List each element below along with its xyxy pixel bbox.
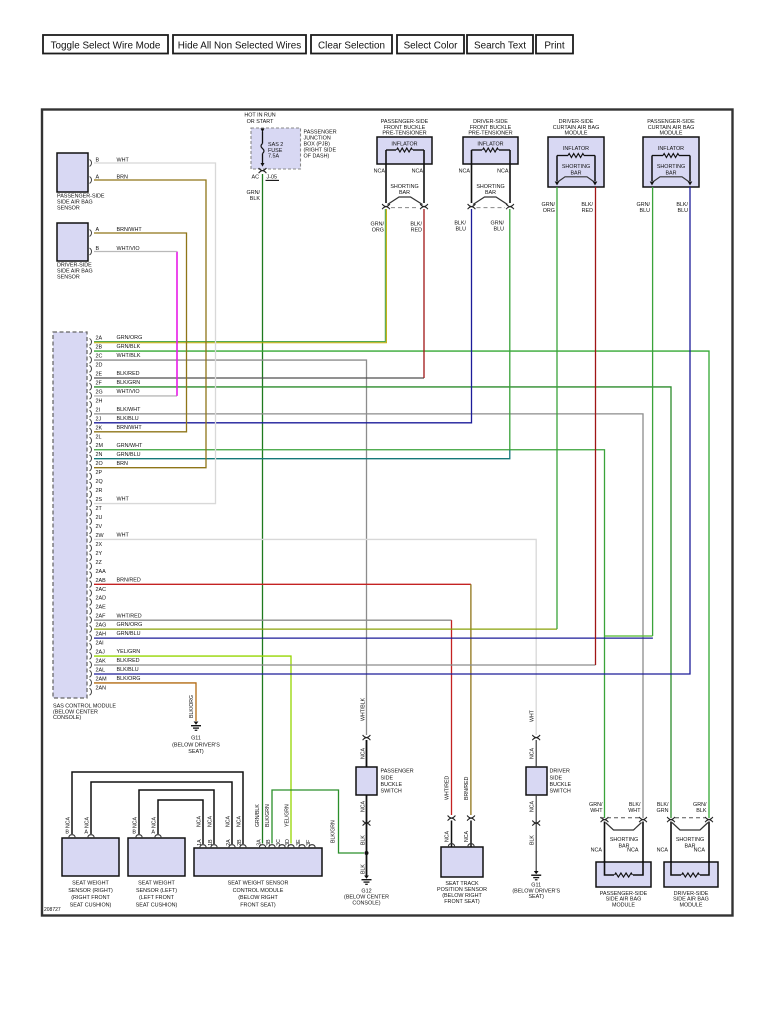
pin B of driver side air bag sensor	[90, 246, 100, 255]
component passenger side buckle switch	[356, 767, 414, 795]
component passenger-side side air bag module	[596, 862, 651, 908]
wire label BRN/RED at seat track sensor	[464, 776, 470, 800]
pin 2M of SAS control module	[90, 443, 143, 453]
svg-text:SEAT): SEAT)	[528, 894, 544, 900]
svg-text:2A: 2A	[96, 336, 103, 342]
wire label GRN/ORG at passenger pre-tensioner	[371, 221, 385, 233]
wire 2A GRN/ORG from SAS 2A to passenger front pre-tensioner	[94, 209, 386, 343]
wire from seat weight sensor right pin A to control module pin 2A	[91, 782, 232, 844]
svg-text:NCA: NCA	[530, 748, 536, 759]
wire label BLK/BLU at passenger curtain module	[676, 202, 688, 214]
shorting bar of driver side air bag module	[672, 823, 708, 850]
svg-text:2T: 2T	[96, 506, 103, 512]
svg-text:SEAT WEIGHT: SEAT WEIGHT	[138, 880, 175, 886]
svg-text:NCA: NCA	[208, 816, 214, 827]
svg-text:SWITCH: SWITCH	[550, 789, 571, 795]
wire label BLK/BLU at driver pre-tensioner	[454, 220, 466, 232]
button Clear Selection	[311, 35, 392, 54]
component seat weight sensor control module	[194, 848, 322, 909]
svg-text:2Z: 2Z	[96, 560, 103, 566]
svg-text:208727: 208727	[44, 907, 61, 913]
pin 2B of seat weight sensor control module	[237, 839, 246, 847]
svg-text:BLU: BLU	[678, 208, 689, 214]
component seat weight sensor right	[62, 838, 119, 909]
svg-text:GRN/WHT: GRN/WHT	[117, 443, 143, 449]
svg-text:SEAT WEIGHT: SEAT WEIGHT	[72, 880, 109, 886]
diagram number 208727	[44, 907, 61, 913]
pin 2E of SAS control module	[90, 371, 140, 381]
svg-text:NCA: NCA	[657, 847, 669, 853]
svg-text:FRONT SEAT): FRONT SEAT)	[444, 899, 480, 905]
pin 1A of seat weight sensor control module	[197, 839, 206, 847]
svg-text:2D: 2D	[96, 363, 103, 369]
svg-text:SWITCH: SWITCH	[381, 789, 402, 795]
pin A of driver side air bag sensor	[90, 227, 100, 236]
label NCA pins driver front pre-tensioner	[459, 168, 509, 174]
wire NCA into passenger buckle switch	[361, 740, 367, 767]
wire 2AG GRN/ORG from SAS 2AG to driver curtain air bag module	[94, 187, 557, 629]
svg-text:WHT/RED: WHT/RED	[117, 613, 142, 619]
pin 2X of SAS control module	[90, 542, 103, 552]
svg-text:3A: 3A	[256, 839, 262, 846]
pin 2AL of SAS control module	[90, 667, 139, 677]
pin 2L of SAS control module	[90, 434, 102, 444]
wire label YEL/GRN at control module pin 3D	[285, 804, 291, 827]
svg-text:GRN/BLK: GRN/BLK	[117, 344, 141, 350]
svg-text:MODULE: MODULE	[564, 131, 587, 137]
svg-text:3F: 3F	[306, 840, 312, 846]
svg-text:G11: G11	[191, 736, 201, 742]
wire 2B GRN/BLK from SAS 2B to driver-side side air bag module	[94, 351, 709, 818]
wire 2N GRN/BLU from SAS 2N to driver front pre-tensioner	[94, 209, 510, 459]
svg-text:2I: 2I	[96, 407, 101, 413]
svg-text:NCA: NCA	[459, 168, 471, 174]
wire NCA into driver buckle switch	[530, 740, 537, 767]
wire 2K BRN/WHT from SAS 2K to driver side air bag sensor pin A	[94, 233, 187, 432]
pins B and A of seat weight sensor right	[65, 817, 94, 838]
component driver-side curtain air bag module	[548, 119, 604, 187]
svg-text:SENSOR: SENSOR	[57, 206, 80, 212]
svg-text:INFLATOR: INFLATOR	[563, 146, 589, 152]
pigtail wires of driver side air bag module	[671, 822, 709, 863]
wire label WHT above driver buckle switch	[530, 709, 536, 722]
svg-text:SEAT CUSHION): SEAT CUSHION)	[70, 903, 112, 909]
svg-text:(BELOW RIGHT: (BELOW RIGHT	[238, 895, 278, 901]
wire label GRN/BLK at driver side air bag module	[693, 802, 707, 814]
wire label BLK/RED at passenger pre-tensioner	[410, 221, 422, 233]
button Print	[536, 35, 573, 54]
pin 2T of SAS control module	[90, 506, 103, 516]
svg-text:PRE-TENSIONER: PRE-TENSIONER	[382, 131, 426, 137]
svg-text:DRIVER: DRIVER	[550, 769, 570, 775]
wire 2W WHT from SAS 2W to driver side buckle switch	[94, 539, 536, 735]
svg-text:A: A	[96, 227, 100, 233]
pigtail wires and NCA pins of seat track sensor	[445, 821, 475, 848]
svg-text:BLK: BLK	[250, 196, 261, 202]
svg-text:SIDE: SIDE	[381, 775, 394, 781]
svg-text:PASSENGER: PASSENGER	[381, 769, 414, 775]
svg-text:NCA: NCA	[197, 816, 203, 827]
svg-text:3D: 3D	[285, 839, 291, 846]
pin 2C of SAS control module	[90, 353, 141, 363]
svg-text:NCA: NCA	[152, 817, 158, 828]
svg-text:2B: 2B	[237, 839, 243, 846]
wire 2M GRN/WHT from SAS 2M to passenger-side side air bag module	[94, 450, 605, 818]
pin 2AC of SAS control module	[90, 587, 107, 597]
pin 2Z of SAS control module	[90, 560, 103, 570]
svg-text:2AE: 2AE	[96, 605, 107, 611]
wire label GRN/BLU at passenger curtain module	[637, 202, 651, 214]
wire label WHT/RED at seat track sensor	[445, 776, 451, 800]
pin 2A of seat weight sensor control module	[226, 839, 235, 847]
svg-text:SENSOR (LEFT): SENSOR (LEFT)	[136, 888, 177, 894]
svg-text:3B: 3B	[266, 839, 272, 846]
svg-text:SHORTING: SHORTING	[390, 184, 418, 190]
svg-text:3C: 3C	[276, 839, 282, 846]
svg-text:2J: 2J	[96, 416, 102, 422]
wire 2F BLK/GRN from SAS 2F to driver-side side air bag module	[94, 387, 671, 818]
pin 2B of SAS control module	[90, 344, 141, 354]
pin 2AJ of SAS control module	[90, 649, 141, 659]
wire 2AM BLK/ORG from SAS 2AM to ground G11	[94, 683, 196, 721]
svg-text:CONSOLE): CONSOLE)	[352, 900, 380, 906]
component seat track position sensor	[437, 847, 487, 905]
svg-text:2A: 2A	[226, 839, 232, 846]
svg-text:2K: 2K	[96, 425, 103, 431]
wire 2AJ YEL/GRN from SAS 2AJ to seat weight sensor control module pin 3D	[94, 656, 291, 843]
ground G11 below driver seat (buckle switch)	[512, 871, 560, 900]
svg-text:1A: 1A	[197, 839, 203, 846]
pin 2N of SAS control module	[90, 452, 141, 462]
wire 2O BRN from SAS 2O to passenger side air bag sensor pin A	[94, 180, 206, 468]
svg-text:2M: 2M	[96, 443, 104, 449]
wire below passenger buckle switch to ground G12	[361, 795, 371, 876]
pin 2AM of SAS control module	[90, 676, 141, 686]
svg-text:GRN/ORG: GRN/ORG	[117, 335, 143, 341]
component passenger-side curtain air bag module	[643, 119, 699, 187]
svg-text:2AD: 2AD	[96, 596, 107, 602]
ground G12 below center console	[344, 876, 389, 907]
button Select Color	[397, 35, 464, 54]
svg-text:BLK/BLU: BLK/BLU	[117, 416, 139, 422]
wire label BLK/GRN at control module pin 3B	[265, 804, 271, 827]
svg-text:PRE-TENSIONER: PRE-TENSIONER	[468, 131, 512, 137]
svg-text:2AF: 2AF	[96, 614, 107, 620]
pin 3F of seat weight sensor control module	[306, 840, 315, 847]
pin arrows of driver curtain module	[555, 182, 598, 186]
svg-text:(RIGHT FRONT: (RIGHT FRONT	[71, 895, 110, 901]
svg-text:BLU: BLU	[456, 226, 467, 232]
wire 2I BLK/WHT from SAS 2I to passenger-side side air bag module	[94, 414, 643, 818]
wire label GRN/ORG at driver curtain module	[542, 202, 556, 214]
svg-text:2AG: 2AG	[96, 623, 107, 629]
svg-text:BRN/RED: BRN/RED	[117, 577, 141, 583]
svg-text:BLK/GRN: BLK/GRN	[331, 820, 337, 843]
svg-text:GRN: GRN	[657, 808, 669, 814]
wire label BLK/RED at driver curtain module	[581, 202, 593, 214]
pin 3D of seat weight sensor control module	[285, 839, 294, 847]
svg-text:Select Color: Select Color	[404, 40, 458, 51]
svg-text:BLU: BLU	[640, 208, 651, 214]
passenger junction box (PJB) dashed box	[251, 128, 301, 169]
pin 2F of SAS control module	[90, 380, 141, 390]
wire 2S WHT from SAS 2S to passenger side air bag sensor pin B	[94, 163, 216, 504]
power feed HOT IN RUN OR START	[244, 113, 275, 125]
svg-text:NCA: NCA	[237, 816, 243, 827]
svg-text:RED: RED	[582, 208, 593, 214]
shorting bar of driver curtain module	[557, 164, 595, 182]
svg-text:BRN/WHT: BRN/WHT	[117, 227, 143, 233]
svg-text:2AH: 2AH	[96, 632, 107, 638]
pin 2D of SAS control module	[90, 363, 103, 373]
svg-text:1B: 1B	[208, 839, 214, 846]
component seat weight sensor left	[128, 838, 185, 909]
svg-text:J-05: J-05	[267, 175, 278, 181]
wire from seat weight sensor right pin B to control module pin 2B	[72, 772, 243, 844]
diagram border frame	[42, 110, 733, 916]
svg-text:2Y: 2Y	[96, 551, 103, 557]
wire from seat weight sensor left pin B to control module pin 1B	[139, 790, 214, 844]
wire 2J BLK/BLU from SAS 2J to driver front pre-tensioner	[94, 209, 472, 423]
shorting bar of driver front pre-tensioner	[473, 184, 508, 205]
svg-text:GRN/BLU: GRN/BLU	[117, 452, 141, 458]
svg-text:NCA: NCA	[445, 831, 451, 842]
component driver side buckle switch	[526, 767, 571, 795]
svg-text:NCA: NCA	[133, 817, 139, 828]
svg-text:BAR: BAR	[665, 170, 676, 176]
inflator resistor of driver side air bag module	[671, 861, 709, 877]
svg-text:MODULE: MODULE	[612, 902, 635, 908]
pin A of passenger side air bag sensor	[90, 175, 100, 184]
button Hide All Non Selected Wires	[173, 35, 306, 54]
pin 2O of SAS control module	[90, 461, 128, 471]
svg-text:YEL/GRN: YEL/GRN	[117, 649, 141, 655]
svg-text:NCA: NCA	[374, 168, 386, 174]
svg-text:NCA: NCA	[530, 801, 536, 812]
pin 2U of SAS control module	[90, 515, 103, 525]
svg-text:SHORTING: SHORTING	[562, 164, 590, 170]
svg-text:GRN/ORG: GRN/ORG	[117, 622, 143, 628]
svg-text:NCA: NCA	[85, 817, 91, 828]
svg-text:BLU: BLU	[494, 226, 505, 232]
pin 3A of seat weight sensor control module	[256, 839, 265, 847]
svg-text:Search Text: Search Text	[474, 40, 526, 51]
svg-text:MODULE: MODULE	[679, 902, 702, 908]
svg-text:2E: 2E	[96, 371, 103, 377]
pins B and A of seat weight sensor left	[132, 817, 161, 838]
pigtail wires of passenger side air bag module	[605, 822, 644, 863]
svg-text:WHT: WHT	[590, 808, 603, 814]
wire 2AL BLK/BLU from SAS 2AL to passenger curtain air bag module	[94, 187, 690, 674]
inflator resistor of driver curtain module	[557, 154, 595, 182]
svg-text:BLK/RED: BLK/RED	[117, 371, 140, 377]
pin 2J of SAS control module	[90, 416, 139, 426]
svg-text:NCA: NCA	[66, 817, 72, 828]
svg-text:2X: 2X	[96, 542, 103, 548]
pin 2AH of SAS control module	[90, 631, 141, 641]
svg-text:2AJ: 2AJ	[96, 650, 106, 656]
component passenger-side side air bag sensor	[57, 153, 105, 212]
svg-text:AC: AC	[252, 175, 260, 181]
svg-text:B: B	[65, 830, 69, 836]
svg-text:BLK: BLK	[696, 808, 707, 814]
labels NCA of passenger side air bag module	[591, 847, 639, 853]
pin 3C of seat weight sensor control module	[276, 839, 285, 847]
label NCA pins passenger front pre-tensioner	[374, 168, 424, 174]
svg-text:2AN: 2AN	[96, 685, 107, 691]
pin B of passenger side air bag sensor	[90, 158, 100, 167]
svg-text:2B: 2B	[96, 345, 103, 351]
wire label WHT/VIO pin B	[117, 246, 140, 252]
svg-text:2N: 2N	[96, 452, 103, 458]
wire BLK/GRN from control module 3B to G12 junction	[272, 790, 364, 853]
labels NCA of driver side air bag module	[657, 847, 706, 853]
shorting bar of passenger side air bag module	[606, 823, 642, 850]
wire label BRN pin A	[117, 175, 128, 181]
fuse SAS 2 FUSE 7.5A	[261, 129, 284, 167]
svg-text:BRN/RED: BRN/RED	[464, 776, 470, 800]
svg-text:WHT/RED: WHT/RED	[445, 776, 451, 800]
pin 3B of seat weight sensor control module	[266, 839, 275, 847]
svg-text:2U: 2U	[96, 515, 103, 521]
svg-text:BLK/RED: BLK/RED	[117, 658, 140, 664]
svg-text:NCA: NCA	[627, 847, 639, 853]
svg-text:SEAT): SEAT)	[188, 749, 204, 755]
svg-text:2AC: 2AC	[96, 587, 107, 593]
svg-text:NCA: NCA	[591, 847, 603, 853]
connectors above passenger side air bag module	[600, 817, 647, 822]
pin 2P of SAS control module	[90, 470, 103, 480]
svg-text:SEAT CUSHION): SEAT CUSHION)	[136, 903, 178, 909]
svg-text:2F: 2F	[96, 380, 103, 386]
svg-text:WHT: WHT	[117, 497, 130, 503]
svg-text:SENSOR (RIGHT): SENSOR (RIGHT)	[68, 888, 113, 894]
svg-text:BAR: BAR	[399, 190, 410, 196]
pin lead wires of driver front pre-tensioner	[472, 150, 511, 203]
wire label GRN/BLU at driver pre-tensioner	[491, 220, 505, 232]
svg-text:NCA: NCA	[464, 831, 470, 842]
svg-text:BRN/WHT: BRN/WHT	[117, 425, 143, 431]
wire 2AB BRN/RED from SAS 2AB to seat track position sensor	[94, 584, 471, 815]
button Search Text	[467, 35, 533, 54]
svg-text:NCA: NCA	[497, 168, 509, 174]
svg-text:WHT/VIO: WHT/VIO	[117, 389, 140, 395]
pin 2W of SAS control module	[90, 533, 130, 543]
svg-text:2O: 2O	[96, 461, 103, 467]
shorting bar of passenger curtain module	[652, 164, 690, 182]
svg-text:A: A	[84, 830, 88, 836]
wire 2E BLK/RED from SAS 2E to passenger front pre-tensioner	[94, 209, 424, 378]
svg-text:BRN: BRN	[117, 461, 128, 467]
svg-text:BLK/WHT: BLK/WHT	[117, 407, 142, 413]
pin 2G of SAS control module	[90, 389, 140, 399]
svg-text:B: B	[132, 830, 136, 836]
svg-text:SHORTING: SHORTING	[476, 184, 504, 190]
svg-text:HOT IN RUN: HOT IN RUN	[244, 113, 275, 119]
svg-text:Print: Print	[544, 40, 565, 51]
svg-text:SHORTING: SHORTING	[657, 164, 685, 170]
svg-text:2S: 2S	[96, 497, 103, 503]
svg-text:SHORTING: SHORTING	[676, 837, 704, 843]
PJB label text	[304, 129, 337, 159]
svg-text:Clear Selection: Clear Selection	[318, 40, 385, 51]
connector J-05 at fuse output	[252, 168, 280, 181]
connector above driver buckle switch	[532, 735, 540, 740]
inflator resistor of passenger curtain module	[652, 154, 690, 182]
component driver-side front buckle pre-tensioner	[463, 119, 518, 164]
svg-text:YEL/GRN: YEL/GRN	[285, 804, 291, 827]
svg-text:2AI: 2AI	[96, 641, 104, 647]
svg-text:BAR: BAR	[485, 190, 496, 196]
svg-text:2Q: 2Q	[96, 479, 103, 485]
svg-text:2AL: 2AL	[96, 667, 106, 673]
pin 2Q of SAS control module	[90, 479, 103, 489]
pin 2I of SAS control module	[90, 407, 142, 417]
component passenger-side front buckle pre-tensioner	[377, 119, 432, 164]
wire GRN/BLK from fuse J-05 down to seat weight sensor control module pin 3A	[247, 174, 263, 844]
svg-text:ORG: ORG	[543, 208, 555, 214]
svg-text:GRN/BLK: GRN/BLK	[255, 804, 261, 827]
svg-text:INFLATOR: INFLATOR	[477, 142, 503, 148]
connector pair below driver front pre-tensioner	[468, 204, 514, 209]
svg-text:2G: 2G	[96, 389, 103, 395]
svg-text:NCA: NCA	[361, 801, 367, 812]
wire label WHT pin B	[117, 158, 130, 164]
svg-text:7.5A: 7.5A	[268, 154, 279, 160]
svg-text:GRN/BLU: GRN/BLU	[117, 631, 141, 637]
inflator resistor of passenger front pre-tensioner	[386, 148, 424, 152]
svg-text:INFLATOR: INFLATOR	[658, 146, 684, 152]
pin 2AN of SAS control module	[90, 685, 107, 695]
svg-text:2W: 2W	[96, 533, 105, 539]
inflator resistor of passenger side air bag module	[605, 861, 644, 877]
wire 2AH GRN/BLU from SAS 2AH to passenger curtain air bag module	[94, 187, 653, 638]
svg-text:2AM: 2AM	[96, 676, 108, 682]
svg-text:MODULE: MODULE	[659, 131, 682, 137]
svg-text:BLK/GRN: BLK/GRN	[117, 380, 141, 386]
svg-text:ORG: ORG	[372, 227, 384, 233]
svg-text:2C: 2C	[96, 354, 103, 360]
svg-text:WHT/BLK: WHT/BLK	[117, 353, 141, 359]
svg-text:NCA: NCA	[226, 816, 232, 827]
svg-text:2AK: 2AK	[96, 659, 107, 665]
wire label BRN/WHT pin A	[117, 227, 143, 233]
svg-text:OR START: OR START	[247, 119, 274, 125]
connectors above seat track position sensor	[448, 816, 475, 821]
pin 2AF of SAS control module	[90, 613, 142, 623]
pin 2S of SAS control module	[90, 497, 130, 507]
svg-text:BUCKLE: BUCKLE	[550, 782, 572, 788]
svg-text:Toggle Select Wire Mode: Toggle Select Wire Mode	[51, 40, 161, 51]
pin 2R of SAS control module	[90, 488, 103, 498]
svg-text:WHT: WHT	[530, 709, 536, 722]
wire label BLK/GRN at driver side air bag module	[657, 802, 669, 814]
pin 2AK of SAS control module	[90, 658, 140, 668]
svg-text:WHT/BLK: WHT/BLK	[361, 697, 367, 721]
wire 2AF WHT/RED from SAS 2AF to seat track position sensor	[94, 620, 452, 815]
wire 2G WHT/VIO from SAS 2G to driver side air bag sensor pin B	[94, 252, 177, 396]
pin 2K of SAS control module	[90, 425, 143, 435]
svg-text:NCA: NCA	[361, 748, 367, 759]
svg-text:NCA: NCA	[694, 847, 706, 853]
svg-text:SIDE: SIDE	[550, 775, 563, 781]
wire label WHT/BLK above passenger buckle switch	[361, 697, 367, 721]
pin lead wires of passenger front pre-tensioner	[386, 150, 424, 203]
junction node of BLK/GRN and buckle switch ground	[365, 851, 369, 855]
pin 2AA of SAS control module	[90, 569, 107, 579]
wire 2C WHT/BLK from SAS 2C to passenger side buckle switch	[94, 360, 367, 735]
svg-text:CONTROL MODULE: CONTROL MODULE	[233, 888, 284, 894]
